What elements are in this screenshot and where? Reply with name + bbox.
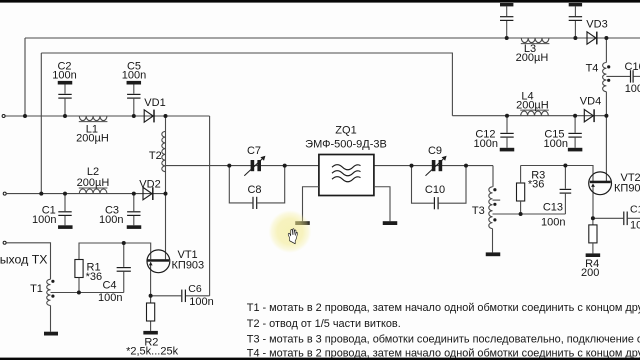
capacitor bypass top A bbox=[500, 3, 513, 6]
capacitor C13 bbox=[564, 166, 566, 189]
resistor R3 bbox=[517, 183, 525, 201]
capacitor C4 bbox=[123, 243, 125, 267]
svg-text:200µH: 200µH bbox=[516, 99, 549, 111]
wire T4 tap to C16 bbox=[606, 75, 630, 77]
transistor VT2 bbox=[589, 172, 612, 195]
node dots right rail bbox=[505, 114, 509, 118]
svg-text:VD1: VD1 bbox=[144, 97, 165, 109]
svg-text:C8: C8 bbox=[247, 184, 261, 196]
transformer T4 winding bbox=[603, 63, 607, 92]
T1 winding start dots bbox=[51, 280, 54, 283]
wire vertical bypass x209 bbox=[209, 116, 211, 296]
svg-text:200: 200 bbox=[581, 267, 599, 279]
ground T1 bbox=[44, 332, 58, 336]
svg-text:100n: 100n bbox=[32, 214, 56, 226]
wire vertical feed left to top rail bbox=[24, 38, 26, 116]
inductor L1 bbox=[79, 116, 107, 121]
svg-text:Т4 - мотать в 2 провода, затем: Т4 - мотать в 2 провода, затем начало од… bbox=[247, 347, 640, 359]
inductor L4 bbox=[521, 111, 549, 116]
svg-text:100n: 100n bbox=[189, 296, 213, 308]
ground ZQ1 left (highlighted) bbox=[295, 221, 310, 225]
filter ZQ1 box bbox=[319, 155, 374, 196]
wire T4 column bbox=[605, 38, 607, 63]
wire C16 right to edge bbox=[634, 75, 640, 77]
diode VD4 bbox=[584, 110, 593, 122]
node dot VT2 source bbox=[591, 216, 595, 220]
wire VT1 source lead bbox=[150, 262, 152, 296]
resistor R1 bbox=[75, 260, 83, 278]
svg-text:C6: C6 bbox=[188, 283, 202, 295]
wire T3 bottom lead bbox=[492, 229, 494, 253]
wire input line 2 bbox=[7, 193, 166, 195]
svg-text:C7: C7 bbox=[247, 145, 261, 157]
svg-text:VD2: VD2 bbox=[139, 179, 160, 191]
wire R1-C4-gate line bbox=[79, 243, 151, 260]
svg-text:C16: C16 bbox=[625, 61, 640, 73]
node rail-second wire bbox=[41, 53, 452, 116]
svg-text:100n: 100n bbox=[99, 214, 123, 226]
wire vertical x41 wire2 to rail-second bbox=[40, 53, 42, 194]
svg-text:200µH: 200µH bbox=[76, 133, 109, 145]
svg-text:КП903: КП903 bbox=[614, 183, 640, 195]
inductor L2 bbox=[79, 189, 107, 194]
diode VD1 bbox=[144, 110, 153, 122]
svg-text:100n: 100n bbox=[98, 292, 122, 304]
wire C14 right to edge bbox=[628, 217, 640, 219]
variable capacitor C9 bbox=[432, 160, 436, 171]
svg-text:T1: T1 bbox=[30, 283, 43, 295]
svg-text:T3: T3 bbox=[472, 205, 485, 217]
svg-text:100n: 100n bbox=[541, 216, 565, 228]
wire T1 bottom lead bbox=[50, 306, 52, 332]
wire input line 1 bbox=[6, 115, 210, 117]
svg-text:C14: C14 bbox=[630, 203, 640, 215]
svg-text:100n: 100n bbox=[625, 83, 640, 95]
resistor R4 bbox=[589, 225, 597, 243]
svg-text:T2: T2 bbox=[149, 150, 162, 162]
svg-text:ZQ1: ZQ1 bbox=[335, 124, 356, 136]
ground T3 bbox=[486, 252, 501, 256]
diode VD3 bbox=[587, 32, 596, 44]
svg-text:100n: 100n bbox=[544, 138, 568, 150]
node dot C7 left bbox=[227, 164, 231, 168]
capacitor C8 loop bbox=[229, 166, 252, 203]
capacitor C10 loop bbox=[412, 166, 434, 204]
wire T3 down lead bbox=[492, 166, 494, 187]
wire T4 bottom to VT2 drain bbox=[605, 92, 607, 182]
capacitor C3 bbox=[133, 194, 135, 212]
node dot VD3 out bbox=[604, 36, 608, 40]
svg-text:Т1 - мотать в 2 провода, затем: Т1 - мотать в 2 провода, затем начало од… bbox=[247, 302, 640, 314]
letterbox bar top bbox=[0, 0, 640, 3]
wire right filter rail bbox=[452, 115, 606, 117]
node rail-top wire bbox=[25, 37, 640, 39]
variable capacitor C7 bbox=[251, 160, 255, 171]
capacitor bypass top B bbox=[569, 3, 582, 6]
node dot C9 left bbox=[410, 164, 414, 168]
wire T3 tap rail bbox=[493, 213, 566, 215]
node dot R1 bottom bbox=[77, 291, 81, 295]
node dot C13 top bbox=[563, 164, 567, 168]
wire ZQ1 left ground stub bbox=[303, 187, 319, 221]
svg-text:100n: 100n bbox=[122, 69, 146, 81]
diode VD2 bbox=[143, 187, 152, 199]
svg-text:Т2 - отвод от 1/5 части витков: Т2 - отвод от 1/5 части витков. bbox=[247, 318, 401, 330]
wire R2 leads bbox=[150, 296, 152, 303]
T4 winding start dots bbox=[607, 65, 610, 68]
wire C4 riser bottom bbox=[123, 272, 125, 293]
transformer T2 winding bbox=[162, 131, 166, 171]
svg-text:*2,5k...25k: *2,5k...25k bbox=[126, 346, 178, 358]
wire ZQ1 out line bbox=[374, 165, 493, 167]
svg-text:КП903: КП903 bbox=[172, 259, 205, 271]
wire C6 to bypass riser bbox=[186, 295, 210, 297]
svg-text:ЭМФ-500-9Д-3В: ЭМФ-500-9Д-3В bbox=[305, 138, 387, 150]
terminal input 1 bbox=[2, 115, 5, 118]
wire gate line VT2 bbox=[521, 166, 593, 182]
svg-text:C13: C13 bbox=[543, 201, 563, 213]
wire R4 top lead bbox=[592, 218, 594, 225]
node dot C7 right bbox=[283, 164, 287, 168]
node dots input line 1 bbox=[23, 114, 27, 118]
wire tap line T2 to filter bbox=[166, 165, 319, 167]
node dot VD4 out bbox=[604, 114, 608, 118]
wire VT2 source lead bbox=[592, 185, 594, 218]
inductor L3 bbox=[521, 38, 549, 43]
letterbox bar bottom bbox=[0, 358, 640, 360]
capacitor C12 bbox=[506, 116, 508, 133]
ground R4 bbox=[586, 253, 601, 257]
svg-text:100n: 100n bbox=[52, 69, 76, 81]
ground ZQ1 right bbox=[383, 221, 398, 225]
wire VT1 source node line to C6 bbox=[151, 295, 182, 297]
capacitor C16 bbox=[630, 70, 632, 82]
svg-text:Т3 - мотать в 3 провода, обмот: Т3 - мотать в 3 провода, обмотки соедини… bbox=[247, 333, 640, 345]
node dot VT1 source bbox=[149, 294, 153, 298]
svg-text:200µH: 200µH bbox=[516, 52, 549, 64]
node dots input line 2 bbox=[39, 192, 43, 196]
ground R2 bbox=[143, 331, 158, 335]
svg-text:Выход ТХ: Выход ТХ bbox=[0, 252, 47, 266]
wire output TX to T1 bbox=[7, 243, 51, 279]
T3 stub tap bbox=[493, 199, 501, 201]
node dot R3 bottom bbox=[519, 212, 523, 216]
node dot C9 right bbox=[464, 164, 468, 168]
transistor VT1 bbox=[147, 250, 170, 273]
svg-text:VD4: VD4 bbox=[580, 96, 601, 108]
capacitor C2 bbox=[58, 81, 73, 85]
resistor R2 bbox=[147, 303, 155, 321]
capacitor C1 bbox=[64, 194, 66, 212]
svg-text:*36: *36 bbox=[86, 271, 103, 283]
wire T2 column bbox=[165, 116, 167, 259]
svg-text:C10: C10 bbox=[425, 184, 445, 196]
capacitor C5 bbox=[127, 81, 142, 85]
terminal input 2 bbox=[3, 192, 6, 195]
capacitor C15 bbox=[574, 116, 576, 133]
capacitor C14 bbox=[623, 212, 625, 226]
wire ZQ1 right ground stub bbox=[374, 187, 390, 221]
svg-text:*36: *36 bbox=[528, 179, 545, 191]
terminal output TX bbox=[3, 241, 6, 244]
node dots top rail caps bbox=[505, 36, 509, 40]
svg-text:100n: 100n bbox=[474, 138, 498, 150]
wire T1 tap rail bbox=[51, 292, 124, 294]
svg-text:C9: C9 bbox=[428, 145, 442, 157]
transformer T3 winding bbox=[489, 187, 493, 229]
svg-text:200µH: 200µH bbox=[77, 177, 110, 189]
svg-text:100n: 100n bbox=[630, 220, 640, 232]
transformer T1 winding bbox=[47, 279, 51, 305]
hand cursor bbox=[288, 229, 297, 244]
svg-text:C4: C4 bbox=[102, 280, 116, 292]
svg-text:T4: T4 bbox=[586, 62, 599, 74]
node dot C4 top bbox=[122, 241, 126, 245]
wire source node to C14 bbox=[593, 217, 623, 219]
capacitor C6 bbox=[181, 290, 183, 303]
svg-text:VD3: VD3 bbox=[586, 19, 607, 31]
T3 winding start dots bbox=[493, 188, 496, 191]
